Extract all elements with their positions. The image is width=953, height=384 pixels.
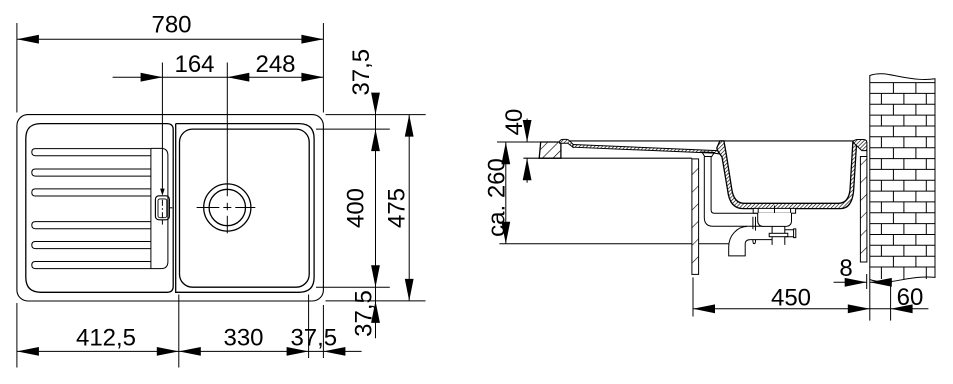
sink rim inner edge, drainer area [26, 124, 173, 293]
overflow fitting inner [158, 199, 167, 218]
svg-text:37,5: 37,5 [348, 49, 375, 96]
svg-text:450: 450 [771, 284, 811, 311]
dimension 400 line [375, 129, 377, 287]
drain side stub [785, 229, 796, 238]
drain centerline horizontal [197, 207, 220, 209]
drainer groove 2 [32, 169, 151, 176]
svg-text:400: 400 [343, 188, 370, 228]
dimension ca. 260 line [505, 142, 507, 244]
dimension 8 line [834, 281, 867, 283]
extension line sink bottom right [326, 300, 426, 302]
bowl edge [180, 129, 310, 287]
svg-text:248: 248 [255, 51, 295, 78]
drain strainer plate [753, 208, 795, 213]
drainer groove 4 [32, 222, 151, 229]
drainer surface section band [573, 145, 721, 155]
drain circle outer [204, 184, 251, 231]
fitting centerline [161, 200, 163, 206]
countertop top extension line [497, 141, 561, 143]
dimension 60 extension [890, 279, 892, 320]
svg-text:60: 60 [897, 284, 924, 311]
svg-text:164: 164 [174, 51, 214, 78]
extension line bowl bottom right [316, 286, 390, 288]
dimension 40 line [526, 119, 528, 143]
extension line bowl top right [316, 128, 390, 130]
dimension 248 extension (bowl centerline) [226, 63, 228, 197]
drain nut [769, 233, 788, 236]
dimension 8 extension [866, 274, 868, 289]
cabinet side panel right [860, 157, 867, 263]
drain trap bell [758, 213, 792, 227]
svg-text:330: 330 [223, 324, 263, 351]
svg-text:37,5: 37,5 [351, 290, 378, 337]
cabinet side panel left [692, 159, 699, 275]
extension line bottom left [16, 303, 18, 368]
cabinet depth reference line [499, 243, 728, 245]
svg-text:8: 8 [839, 255, 852, 282]
trap dip tube [753, 217, 756, 244]
svg-text:412,5: 412,5 [76, 324, 136, 351]
countertop bottom edge [523, 157, 692, 159]
drainer field right contour [151, 148, 168, 268]
bowl section band [717, 141, 857, 209]
extension line sink top right [326, 114, 426, 116]
extension line drainer/bowl [178, 295, 180, 368]
dimension 780 extension left [16, 23, 18, 113]
dimension 780 line [17, 38, 324, 40]
svg-text:37,5: 37,5 [290, 324, 337, 351]
drain centerline vertical lower [226, 203, 228, 210]
dimension 475 line [408, 115, 410, 301]
extension line bowl right bottom [308, 295, 310, 359]
overflow fitting outer [155, 196, 169, 220]
brick wall [870, 74, 935, 282]
drainer groove 5 [32, 242, 151, 249]
svg-text:780: 780 [151, 12, 191, 39]
svg-text:40: 40 [501, 109, 528, 136]
drain circle inner [209, 189, 245, 225]
dimension 450 / 60 line [693, 308, 928, 310]
sink outer edge (top view) [17, 115, 324, 301]
dimension 412,5 / 330 / 37,5 line [17, 350, 362, 352]
drain tail pipe [772, 226, 785, 245]
sink back rim edge line [563, 140, 867, 142]
sink front lip section [560, 139, 574, 147]
dimension 164 extension (fitting centerline) [161, 63, 163, 190]
dimension 780 extension right [322, 23, 324, 113]
wall left extension [869, 280, 871, 321]
countertop block section [539, 142, 561, 158]
sink rim inner edge around bowl [176, 124, 314, 293]
groove end line [150, 148, 152, 269]
drainer groove 1 [32, 149, 151, 156]
extension line sink right bottom [322, 305, 324, 358]
waste elbow [729, 226, 772, 256]
dimension 37,5 top line [375, 95, 377, 129]
dimension 37,5 bottom line [375, 287, 377, 338]
extension cabinet left [692, 277, 694, 316]
drain center tick [774, 206, 776, 217]
brick courses [870, 82, 935, 84]
svg-text:475: 475 [384, 188, 411, 228]
drainer groove 6 [32, 262, 151, 269]
overflow funnel [702, 152, 715, 157]
sink right edge section [853, 140, 867, 151]
svg-text:ca. 260: ca. 260 [483, 158, 510, 237]
overflow pipe [704, 157, 764, 227]
drainer groove 3 [32, 189, 151, 196]
dimension 164/248 line [113, 76, 324, 78]
